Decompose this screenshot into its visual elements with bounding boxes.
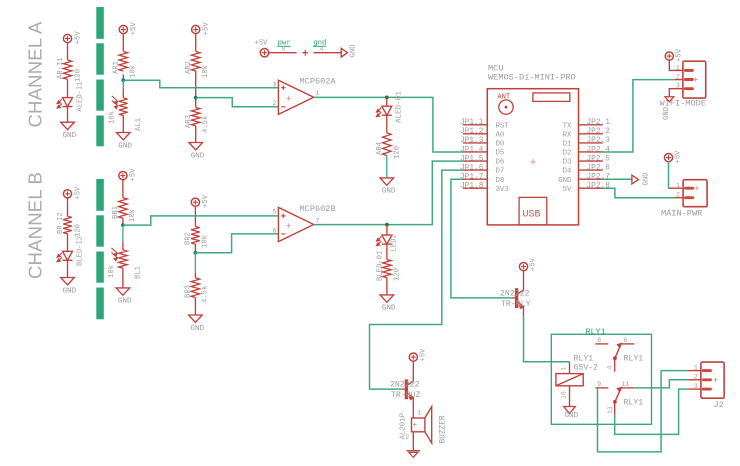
wire	[122, 183, 124, 198]
svg-text:GND: GND	[382, 188, 396, 196]
resistor BR2 10k	[185, 227, 210, 249]
wire	[194, 253, 196, 273]
svg-text:AR1: AR1	[113, 61, 121, 74]
svg-text:ALED-01: ALED-01	[396, 91, 404, 123]
wire pin stub	[669, 187, 684, 189]
wire	[122, 225, 124, 242]
svg-text:6: 6	[624, 337, 628, 344]
svg-text:JP1.8: JP1.8	[460, 183, 484, 191]
svg-text:A0: A0	[496, 131, 505, 139]
wire	[386, 97, 388, 106]
svg-text:11: 11	[622, 381, 630, 388]
svg-text:1: 1	[316, 90, 320, 97]
svg-text:+5V: +5V	[74, 31, 82, 45]
ground	[189, 143, 205, 161]
svg-text:BR3: BR3	[185, 285, 193, 298]
wire op-amp B output to D6 and LED2 node	[314, 161, 463, 225]
svg-text:9: 9	[597, 381, 601, 388]
LED BLED-01 LED2	[376, 234, 398, 281]
svg-text:GND: GND	[382, 305, 396, 313]
wire TR-RLY emitter to relay coil	[523, 307, 525, 317]
svg-text:JP2.8: JP2.8	[587, 183, 611, 191]
wire relay pin11 to J2 pin2	[634, 380, 688, 388]
svg-text:AL1: AL1	[135, 118, 143, 131]
svg-text:120: 120	[394, 146, 402, 159]
svg-text:GND: GND	[191, 152, 205, 160]
svg-text:1: 1	[418, 410, 422, 417]
relay contact 1 RLY1 pins 8 6 4	[595, 337, 643, 372]
svg-text:+5V: +5V	[676, 48, 684, 62]
svg-text:+5V: +5V	[530, 257, 538, 271]
wire pwr pin 8	[269, 40, 297, 53]
node divider A2	[194, 96, 198, 100]
svg-text:CHANNEL A: CHANNEL A	[25, 21, 46, 127]
wire pin stub	[674, 79, 683, 81]
svg-text:+5V: +5V	[420, 348, 428, 362]
svg-text:TR-RLY: TR-RLY	[501, 300, 531, 309]
svg-text:LED2: LED2	[391, 234, 399, 251]
svg-text:TX: TX	[563, 122, 572, 130]
ground	[663, 97, 674, 120]
svg-text:AR4: AR4	[376, 142, 384, 155]
connector J2	[688, 362, 724, 410]
svg-text:10k: 10k	[109, 111, 117, 124]
resistor AR3 4.5k	[185, 108, 210, 134]
buzzer BUZZER AL201P	[400, 407, 448, 444]
svg-text:BR2: BR2	[185, 232, 193, 245]
svg-text:GND: GND	[63, 132, 77, 140]
supply +5V BLED-I2	[63, 186, 82, 201]
svg-text:D3: D3	[563, 159, 572, 167]
ground	[380, 295, 396, 313]
svg-text:RLY1: RLY1	[624, 355, 644, 364]
connector MAIN-PWR	[661, 180, 707, 219]
wire buzzer to ground	[412, 432, 414, 451]
svg-text:120: 120	[394, 268, 402, 281]
svg-text:GND: GND	[558, 177, 572, 185]
ground flag MCU	[632, 173, 651, 186]
svg-text:+5V: +5V	[202, 194, 210, 208]
svg-text:GND: GND	[118, 298, 132, 306]
wire	[67, 79, 69, 97]
svg-text:+5V: +5V	[130, 168, 138, 182]
svg-text:+5V: +5V	[74, 186, 82, 200]
MCU pin JP2.1 TX	[563, 119, 611, 130]
supply +5V WIFI-MODE	[665, 48, 683, 62]
wire WIFI-MODE pin3 to ground	[669, 89, 683, 97]
MCU pin JP1.3 D0	[460, 137, 504, 148]
svg-text:AL201P: AL201P	[400, 412, 408, 439]
svg-text:6: 6	[273, 227, 277, 234]
svg-text:D1: D1	[563, 141, 572, 149]
svg-text:AR-I1: AR-I1	[57, 57, 65, 79]
transistor TR-BUZ 2N2222	[390, 379, 421, 400]
wire op-amp A output to D5 and LED1 node	[314, 97, 463, 152]
wire	[67, 107, 69, 123]
wire D8 to relay transistor base	[451, 179, 512, 298]
svg-text:3: 3	[273, 81, 277, 88]
svg-text:GND: GND	[190, 325, 204, 333]
wire 5V pin JP2.8 to MAIN-PWR pin2	[603, 188, 675, 197]
svg-text:1: 1	[676, 64, 680, 71]
svg-text:RX: RX	[563, 131, 572, 139]
svg-text:2N2222: 2N2222	[390, 381, 420, 390]
wire D7 to buzzer transistor base	[370, 170, 463, 389]
wire GND pin JP2.7 to ground	[603, 178, 632, 180]
svg-text:BUZZER: BUZZER	[440, 415, 448, 443]
wire gnd pin 4	[313, 40, 341, 53]
resistor 120	[383, 260, 402, 282]
svg-text:D5: D5	[496, 150, 505, 158]
svg-text:+5V: +5V	[675, 150, 683, 164]
wire	[194, 244, 196, 253]
MCU pin JP1.1 RST	[460, 119, 509, 130]
wire +5V to WIFI-MODE pin1	[669, 60, 683, 70]
wire +5V to TR-RLY collector	[523, 271, 525, 291]
svg-text:7: 7	[316, 217, 320, 224]
wire	[122, 75, 124, 81]
supply +5V AR1	[119, 22, 138, 37]
wire	[67, 260, 69, 277]
svg-text:RLY1: RLY1	[586, 327, 606, 337]
svg-text:G5V-2: G5V-2	[574, 364, 599, 373]
svg-text:D2: D2	[563, 150, 572, 158]
resistor BR3 4.5k	[185, 278, 210, 303]
svg-text:120: 120	[75, 69, 83, 82]
svg-text:CHANNEL B: CHANNEL B	[25, 172, 46, 279]
wire	[195, 71, 197, 108]
svg-text:D6: D6	[496, 159, 505, 167]
wire relay pin13 to J2 pin3	[615, 389, 688, 434]
resistor AR-I1 120	[57, 57, 83, 82]
MCU pin JP1.8 3V3	[460, 183, 509, 194]
MCU pin JP2.6 D4	[563, 164, 611, 175]
svg-text:D7: D7	[496, 168, 505, 176]
supply +5V AR2	[192, 22, 211, 37]
svg-text:WIFI-MODE: WIFI-MODE	[660, 98, 706, 108]
wire net B2 to op-amp pin6	[195, 234, 278, 253]
svg-text:4.5k: 4.5k	[202, 116, 210, 133]
svg-text:BL1: BL1	[135, 266, 143, 279]
svg-text:USB: USB	[523, 210, 541, 221]
wire +5V to TR-BUZ collector	[412, 361, 414, 381]
supply +5V BR1	[119, 168, 138, 183]
wire	[195, 37, 197, 52]
node divider B2	[194, 251, 198, 255]
svg-text:2: 2	[676, 73, 680, 80]
svg-text:BR-I2: BR-I2	[57, 212, 65, 234]
svg-text:4: 4	[607, 366, 614, 370]
supply +5V BR2	[191, 194, 210, 209]
svg-text:GND: GND	[663, 107, 671, 120]
svg-text:13: 13	[607, 406, 614, 414]
svg-text:D4: D4	[563, 168, 572, 176]
svg-text:JP2.5: JP2.5	[587, 155, 611, 163]
wire	[386, 244, 388, 259]
svg-text:8: 8	[282, 45, 286, 52]
svg-text:10k: 10k	[202, 65, 210, 78]
resistor BR-I2 120	[57, 212, 83, 237]
svg-text:JP1.5: JP1.5	[460, 155, 484, 163]
svg-text:JP1.4: JP1.4	[460, 146, 484, 154]
node LED2	[385, 223, 389, 227]
MCU pin JP1.2 A0	[460, 128, 504, 139]
svg-text:RLY1: RLY1	[574, 355, 594, 364]
svg-text:GND: GND	[350, 45, 358, 58]
svg-text:+5V: +5V	[130, 22, 138, 36]
svg-text:JP2.7: JP2.7	[587, 173, 611, 181]
wire	[194, 298, 196, 316]
ground	[117, 133, 133, 151]
node LED1	[385, 96, 389, 100]
svg-text:JP1.6: JP1.6	[460, 164, 484, 172]
svg-text:GND: GND	[63, 287, 77, 295]
svg-text:JP1.1: JP1.1	[460, 119, 484, 127]
resistor AR1 10k	[113, 52, 138, 79]
svg-text:16: 16	[561, 391, 568, 399]
node divider A1	[121, 78, 125, 82]
wire	[122, 218, 124, 225]
transistor TR-RLY 2N2222	[500, 288, 531, 309]
node divider B1	[121, 223, 125, 227]
MCU pin JP2.5 D3	[563, 155, 611, 166]
wire	[386, 225, 388, 236]
op-amp MCP602B	[273, 204, 336, 242]
svg-text:JP1.2: JP1.2	[460, 128, 484, 136]
MCU pin JP2.3 D1	[563, 137, 611, 148]
svg-text:MCP602B: MCP602B	[300, 204, 336, 214]
svg-text:4.5k: 4.5k	[202, 286, 210, 303]
wire pin stub	[675, 197, 684, 199]
connector J1 WIFI-MODE	[660, 61, 706, 108]
relay coil RLY1 G5V-2	[556, 355, 598, 407]
svg-text:JP1.7: JP1.7	[460, 173, 484, 181]
wire	[67, 201, 69, 217]
separator bar channel A	[96, 7, 104, 146]
supply +5V pwr flag	[255, 40, 269, 57]
wire	[122, 116, 124, 133]
svg-text:J2: J2	[714, 400, 724, 410]
svg-text:MAIN-PWR: MAIN-PWR	[661, 209, 702, 219]
photoresistor BL1 10k	[108, 248, 143, 279]
svg-text:JP2.3: JP2.3	[587, 137, 611, 145]
svg-text:10k: 10k	[129, 209, 137, 222]
LED BLED-I2	[57, 236, 85, 266]
ground	[116, 288, 132, 306]
supply +5V TR-BUZ	[409, 348, 427, 362]
MCU pin JP2.7 GND	[558, 173, 610, 184]
wire net B1 to op-amp pin5	[123, 216, 278, 225]
svg-text:1: 1	[561, 367, 568, 371]
svg-text:JP1.3: JP1.3	[460, 137, 484, 145]
svg-text:5: 5	[273, 209, 277, 216]
MCU pin JP2.8 5V	[563, 183, 611, 194]
svg-text:GND: GND	[643, 173, 651, 186]
wire	[195, 126, 197, 143]
wire	[122, 37, 124, 52]
svg-text:AR3: AR3	[185, 115, 193, 128]
resistor AR4 120	[376, 133, 402, 159]
svg-text:10k: 10k	[108, 265, 116, 278]
ground	[61, 122, 77, 140]
svg-text:AR2: AR2	[185, 61, 193, 74]
separator bar channel B	[96, 179, 104, 319]
svg-text:2: 2	[676, 192, 680, 199]
resistor AR2 10k	[185, 52, 210, 79]
ground	[61, 278, 77, 296]
wire	[386, 278, 388, 295]
svg-text:2: 2	[273, 100, 277, 107]
svg-text:GND: GND	[565, 412, 579, 420]
MCU pin JP1.4 D5	[460, 146, 504, 157]
svg-text:120: 120	[75, 224, 83, 237]
supply +5V TR-RLY	[519, 257, 537, 271]
wire net A1 to op-amp pin3	[123, 80, 278, 88]
svg-text:BR1: BR1	[112, 206, 120, 219]
ground flag	[341, 45, 357, 58]
svg-text:JP2.2: JP2.2	[587, 128, 611, 136]
op-amp MCP602A	[273, 77, 337, 115]
photoresistor AL1 10k	[109, 96, 144, 131]
svg-text:1: 1	[676, 182, 680, 189]
svg-text:MCP602A: MCP602A	[300, 77, 337, 87]
wire	[386, 115, 388, 133]
svg-text:RST: RST	[496, 122, 510, 130]
ground	[380, 178, 396, 196]
ground	[189, 315, 205, 333]
MCU pin JP2.2 RX	[563, 128, 611, 139]
svg-text:D0: D0	[496, 141, 505, 149]
ground relay coil	[564, 407, 579, 420]
node junction cross	[302, 52, 308, 54]
wire	[67, 234, 69, 252]
LED ALED-01	[376, 91, 403, 123]
wire relay pin9 to J2 pin1	[598, 371, 689, 452]
svg-text:+5V: +5V	[255, 40, 269, 48]
svg-text:10k: 10k	[202, 235, 210, 248]
svg-text:10k: 10k	[130, 65, 138, 78]
svg-text:BLED-I2: BLED-I2	[77, 236, 85, 266]
svg-text:+5V: +5V	[203, 22, 211, 36]
svg-text:JP2.4: JP2.4	[587, 146, 611, 154]
wire	[67, 46, 69, 60]
wire	[122, 80, 124, 89]
svg-text:TR-BUZ: TR-BUZ	[391, 391, 421, 400]
svg-text:2N2222: 2N2222	[500, 289, 530, 298]
wire TR-BUZ emitter to buzzer	[412, 398, 414, 418]
wire	[122, 268, 124, 288]
svg-text:8: 8	[597, 337, 601, 344]
svg-text:D8: D8	[496, 177, 505, 185]
MCU WEMOS-D1-MINI-PRO U2	[487, 63, 578, 225]
MCU pin JP1.7 D8	[460, 173, 504, 184]
LED ALED-I1	[57, 81, 85, 111]
resistor BR1 10k	[112, 198, 137, 222]
ground	[407, 451, 421, 458]
svg-text:GND: GND	[118, 142, 132, 150]
supply +5V ALED-I1	[63, 31, 82, 46]
svg-text:JP2.6: JP2.6	[587, 164, 611, 172]
svg-text:RLY1: RLY1	[624, 398, 644, 407]
relay contact 2 RLY1 pins 9 11 13	[595, 381, 643, 415]
svg-text:3V3: 3V3	[496, 186, 509, 194]
wire	[194, 209, 196, 226]
svg-text:4: 4	[320, 45, 324, 52]
MCU pin JP1.5 D6	[460, 155, 504, 166]
svg-text:JP2.1: JP2.1	[587, 119, 611, 127]
wire +5V to MAIN-PWR pin1	[668, 162, 670, 189]
svg-text:5V: 5V	[563, 186, 572, 194]
svg-text:ALED-I1: ALED-I1	[77, 81, 85, 111]
MCU pin JP1.6 D7	[460, 164, 504, 175]
wire net A2 to op-amp pin2	[196, 98, 278, 107]
supply +5V MAIN-PWR	[664, 150, 682, 164]
relay module frame RLY1	[551, 327, 651, 425]
svg-text:WEMOS-D1-MINI-PRO: WEMOS-D1-MINI-PRO	[488, 72, 576, 82]
MCU pin JP2.4 D2	[563, 146, 611, 157]
wire	[386, 156, 388, 178]
wire D2 to WIFI-MODE pin2	[603, 80, 675, 152]
